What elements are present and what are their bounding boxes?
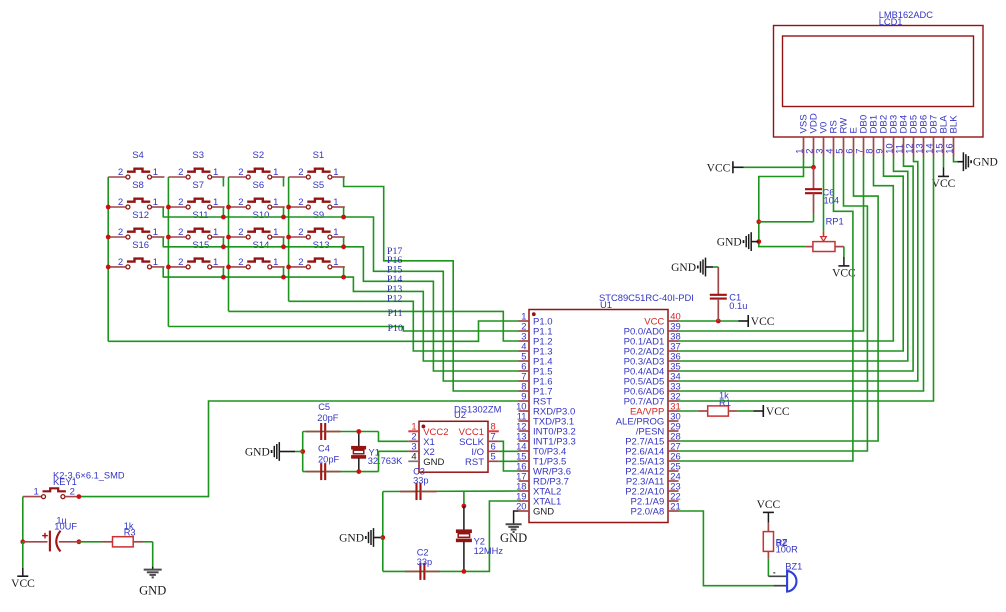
LCD1 pin 3 (V0) xyxy=(823,137,825,156)
microcontroller U1 STC89C51RC-40I-PDI xyxy=(529,310,668,523)
wire column1 net P10 to U1 P1.0 xyxy=(108,321,518,341)
U2 pin 5 (RST) xyxy=(488,460,499,462)
svg-text:2: 2 xyxy=(298,197,303,208)
switch S15 xyxy=(168,266,185,268)
wire DB7 pin14 to P0.7 xyxy=(679,157,934,402)
LCD1 pin 5 (RW) xyxy=(843,137,845,156)
wire DB2 pin9 to P0.2 xyxy=(679,157,904,352)
LCD1 pin 15 (BLA) xyxy=(943,137,945,156)
junction column 4 row 4 xyxy=(286,265,291,270)
U2 pin 3 (X2) xyxy=(408,450,419,452)
svg-text:VCC: VCC xyxy=(757,499,781,511)
svg-text:BZ1: BZ1 xyxy=(785,561,802,571)
switch S7 xyxy=(168,206,185,208)
svg-text:U2: U2 xyxy=(454,409,466,420)
U1 pin 2 (P1.1) xyxy=(519,330,530,332)
junction cap right xyxy=(77,539,82,544)
junction Y1 GND xyxy=(300,449,305,454)
switch S10 xyxy=(229,236,246,238)
junction row line 2 col 2 xyxy=(221,215,226,220)
VCC port left of C6 xyxy=(733,166,744,168)
crystal Y1 32.763K xyxy=(358,432,360,447)
svg-text:12MHz: 12MHz xyxy=(474,546,504,556)
svg-text:5: 5 xyxy=(491,451,496,462)
U2 pin 1 (VCC2) xyxy=(408,430,419,432)
svg-text:C2: C2 xyxy=(417,548,429,558)
wire keypad column 2 rail xyxy=(167,177,169,327)
wire DB1 pin8 to P0.1 xyxy=(679,157,894,342)
wire Y2 feed top xyxy=(463,492,465,507)
switch S1 xyxy=(289,176,306,178)
ground under R3 xyxy=(152,567,154,570)
resistor R3 1k xyxy=(79,541,103,543)
wire column4 net P13 to U1 P1.3 xyxy=(289,301,519,351)
svg-text:R3: R3 xyxy=(124,528,136,538)
LCD1 pin 11 (DB4) xyxy=(903,137,905,156)
potentiometer RP1 xyxy=(813,242,835,252)
wire switch row 2 col 2 pin1 drop xyxy=(222,207,224,217)
U1 pin 29 (/PESN) xyxy=(668,430,679,432)
U1 pin 32 (P0.7/AD7) xyxy=(668,400,679,402)
svg-text:P12: P12 xyxy=(387,293,402,304)
wire S2 pin1 stub xyxy=(283,177,285,187)
U1 pin 13 (INT1/P3.3) xyxy=(519,440,530,442)
wire switch row 3 col 1 pin1 drop xyxy=(162,237,164,247)
LCD module LCD1 LMB162ADC xyxy=(774,26,984,138)
svg-text:P10: P10 xyxy=(388,323,403,334)
wire V0 pin3 to RP1 wiper xyxy=(823,157,825,232)
wire KEY1 to U1 RST pin9 xyxy=(79,401,519,497)
U1 pin 33 (P0.6/AD6) xyxy=(668,390,679,392)
wire switch row 2 col 4 pin1 drop xyxy=(343,207,345,217)
svg-text:S7: S7 xyxy=(192,180,204,191)
switch S16 xyxy=(108,266,125,268)
U1 pin 15 (T1/P3.5) xyxy=(519,460,530,462)
junction column 3 row 2 xyxy=(226,205,231,210)
svg-text:1: 1 xyxy=(153,257,158,268)
svg-text:VCC: VCC xyxy=(932,178,956,190)
svg-text:4: 4 xyxy=(411,451,416,462)
U1 pin 9 (RST) xyxy=(519,400,530,402)
svg-text:2: 2 xyxy=(178,227,183,238)
svg-text:10UF: 10UF xyxy=(54,522,77,532)
svg-text:C4: C4 xyxy=(318,444,330,454)
svg-text:20: 20 xyxy=(516,500,526,511)
svg-text:KEY1: KEY1 xyxy=(53,477,77,487)
junction column 1 row 4 xyxy=(106,265,111,270)
wire U2 I/O to U1 T0/P3.4 xyxy=(499,450,519,452)
U1 pin 34 (P0.5/AD5) xyxy=(668,380,679,382)
U1 pin 18 (XTAL2) xyxy=(519,490,530,492)
LCD1 pin 2 (VDD) xyxy=(813,137,815,156)
U1 pin 20 (GND) xyxy=(519,510,530,512)
svg-text:2: 2 xyxy=(238,227,243,238)
svg-text:2: 2 xyxy=(118,197,123,208)
VCC port under RP1 xyxy=(843,247,845,257)
switch S9 xyxy=(289,236,306,238)
svg-text:1: 1 xyxy=(273,257,278,268)
svg-text:1: 1 xyxy=(213,227,218,238)
junction Y1 top xyxy=(356,429,361,434)
U1 pin 10 (RXD/P3.0) xyxy=(519,410,530,412)
wire VSS pin1 to GND rail xyxy=(759,157,806,247)
ground under U1 xyxy=(506,523,522,525)
junction VDD/VCC/C6 xyxy=(811,165,816,170)
svg-text:1: 1 xyxy=(333,167,338,178)
svg-text:GND: GND xyxy=(500,531,527,545)
svg-text:S1: S1 xyxy=(313,150,325,161)
wire switch row 4 col 3 pin1 drop xyxy=(283,267,285,277)
switch S5 xyxy=(289,206,306,208)
capacitor C5 20pF xyxy=(306,431,321,433)
wire DB5 pin12 to P0.5 xyxy=(679,157,918,382)
capacitor C6 104 xyxy=(813,167,815,189)
junction on VSS rail at C6 bottom xyxy=(756,219,761,224)
LCD1 pin 9 (DB2) xyxy=(883,137,885,156)
wire switch row 3 col 4 pin1 drop xyxy=(343,237,345,247)
U2 pin 8 (VCC1) xyxy=(488,430,499,432)
switch S12 xyxy=(108,236,125,238)
U1 pin 21 (P2.0/A8) xyxy=(668,510,679,512)
svg-text:1: 1 xyxy=(333,227,338,238)
wire switch row 4 col 4 pin1 drop xyxy=(343,267,345,277)
svg-text:S11: S11 xyxy=(192,210,208,221)
U2 pin 6 (I/O) xyxy=(488,450,499,452)
svg-text:1: 1 xyxy=(153,227,158,238)
RTC U2 DS1302ZM xyxy=(419,421,488,472)
svg-text:U1: U1 xyxy=(600,299,612,310)
svg-text:S2: S2 xyxy=(253,150,265,161)
LCD1 pin 1 (VSS) xyxy=(803,137,805,156)
U1 pin 14 (T0/P3.4) xyxy=(519,450,530,452)
U1 pin 31 (EA/VPP) xyxy=(668,410,679,412)
switch S8 xyxy=(108,206,125,208)
LCD1 pin 10 (DB3) xyxy=(893,137,895,156)
junction column 1 row 2 xyxy=(106,205,111,210)
svg-text:GND: GND xyxy=(139,584,166,598)
wire Y2 left rail xyxy=(382,492,384,572)
wire VCC pin40 xyxy=(679,320,739,322)
wire R3 to GND xyxy=(152,542,154,567)
U1 pin 25 (P2.4/A12) xyxy=(668,470,679,472)
U1 pin 16 (WR/P3.6) xyxy=(519,470,530,472)
junction column 2 row 4 xyxy=(166,265,171,270)
svg-text:1: 1 xyxy=(34,487,39,498)
svg-text:STC89C51RC-40I-PDI: STC89C51RC-40I-PDI xyxy=(599,292,694,303)
svg-text:104: 104 xyxy=(824,196,840,206)
wire DB0 pin7 to P0.0 xyxy=(679,157,864,332)
svg-text:1: 1 xyxy=(153,197,158,208)
junction column 1 row 3 xyxy=(106,235,111,240)
junction column 4 row 2 xyxy=(286,205,291,210)
wire switch row 4 col 2 pin1 drop xyxy=(222,267,224,277)
LCD1 pin 4 (RS) xyxy=(833,137,835,156)
U1 pin 3 (P1.2) xyxy=(519,340,530,342)
LCD1 pin 14 (DB7) xyxy=(933,137,935,156)
svg-text:VCC: VCC xyxy=(707,162,731,174)
wire U2 RST to U1 T1/P3.5 xyxy=(499,460,519,462)
junction row line 3 col 4 xyxy=(341,244,346,249)
svg-text:100R: 100R xyxy=(776,545,799,555)
svg-text:2: 2 xyxy=(238,257,243,268)
U1 pin 11 (TXD/P3.1) xyxy=(519,420,530,422)
crystal Y2 12MHz xyxy=(463,506,465,530)
svg-text:VCC: VCC xyxy=(766,406,790,418)
svg-text:S10: S10 xyxy=(253,210,270,221)
svg-text:GND: GND xyxy=(339,532,364,544)
wire XTAL2 rail xyxy=(383,490,519,493)
U1 pin 35 (P0.4/AD4) xyxy=(668,370,679,372)
switch S6 xyxy=(229,206,246,208)
wire XTAL1 rail xyxy=(383,501,519,571)
U1 pin 37 (P0.2/AD2) xyxy=(668,350,679,352)
svg-text:Y2: Y2 xyxy=(474,536,485,546)
capacitor C2 33p xyxy=(405,570,421,572)
capacitor C3 33p xyxy=(400,491,417,493)
LCD1 pin 13 (DB6) xyxy=(923,137,925,156)
svg-text:2: 2 xyxy=(178,257,183,268)
VCC port under LCD pin15 BLA xyxy=(943,157,945,168)
svg-text:32.763K: 32.763K xyxy=(368,456,403,466)
junction row line 3 col 2 xyxy=(221,244,226,249)
VCC port bottom left xyxy=(22,568,24,576)
wire RW pin5 to P2.6 xyxy=(679,157,868,452)
svg-text:GND: GND xyxy=(671,262,696,274)
svg-text:1: 1 xyxy=(153,167,158,178)
wire keypad column 3 rail xyxy=(228,177,230,311)
svg-text:LCD1: LCD1 xyxy=(879,17,903,27)
svg-text:S4: S4 xyxy=(132,150,144,161)
switch S11 xyxy=(168,236,185,238)
svg-text:2: 2 xyxy=(118,257,123,268)
junction row line 3 col 3 xyxy=(281,244,286,249)
junction KEY1 pin2 xyxy=(77,494,82,499)
U1 pin 28 (P2.7/A15) xyxy=(668,440,679,442)
svg-text:1: 1 xyxy=(273,197,278,208)
U1 pin 36 (P0.3/AD3) xyxy=(668,360,679,362)
U1 pin 39 (P0.0/AD0) xyxy=(668,330,679,332)
wire U2 SCLK to U1 WR/P3.6 xyxy=(499,441,519,471)
svg-text:S13: S13 xyxy=(313,240,330,251)
buzzer BZ1 xyxy=(768,575,787,577)
switch KEY1 K2-3,6x6.1_SMD xyxy=(23,496,41,498)
svg-text:2: 2 xyxy=(298,257,303,268)
U1 pin 26 (P2.5/A13) xyxy=(668,460,679,462)
U2 pin 2 (X1) xyxy=(408,440,419,442)
wire VCC down-left xyxy=(22,542,24,568)
wire DB4 pin11 to P0.4 xyxy=(679,157,914,372)
wire KEY1 pin1 down xyxy=(22,497,24,542)
U2 pin 7 (SCLK) xyxy=(488,440,499,442)
svg-text:RP1: RP1 xyxy=(826,216,844,226)
LCD1 pin 12 (DB5) xyxy=(913,137,915,156)
wire U1 GND pin20 to ground xyxy=(514,511,519,524)
junction C1/VCC xyxy=(716,319,721,324)
svg-text:2: 2 xyxy=(238,197,243,208)
svg-text:S9: S9 xyxy=(313,210,325,221)
svg-text:GND: GND xyxy=(717,236,742,248)
svg-text:2: 2 xyxy=(70,487,75,498)
U1 pin 30 (ALE/PROG) xyxy=(668,420,679,422)
svg-text:S5: S5 xyxy=(313,180,325,191)
junction Y2 GND xyxy=(380,535,385,540)
wire column3 net P12 to U1 P1.2 xyxy=(229,311,519,341)
svg-text:33p: 33p xyxy=(413,476,429,486)
svg-text:VCC: VCC xyxy=(751,316,775,328)
LCD1 pin 16 (BLK) xyxy=(953,137,955,156)
svg-text:S3: S3 xyxy=(192,150,204,161)
resistor R1 1k xyxy=(679,410,698,412)
U1 pin 1 (P1.0) xyxy=(519,320,530,322)
svg-text:GND: GND xyxy=(973,157,998,169)
LCD1 pin 6 (E) xyxy=(853,137,855,156)
svg-text:2: 2 xyxy=(178,197,183,208)
svg-text:0.1u: 0.1u xyxy=(729,301,747,311)
wire switch row 4 col 1 pin1 drop xyxy=(162,267,164,277)
wire column2 net P11 to U1 P1.1 xyxy=(168,327,518,332)
U1 pin 27 (P2.6/A14) xyxy=(668,450,679,452)
junction column 3 row 3 xyxy=(226,235,231,240)
svg-text:1: 1 xyxy=(273,167,278,178)
U1 pin 7 (P1.6) xyxy=(519,380,530,382)
svg-text:2: 2 xyxy=(118,167,123,178)
svg-text:2: 2 xyxy=(298,227,303,238)
svg-text:20pF: 20pF xyxy=(317,413,339,423)
svg-text:2: 2 xyxy=(178,167,183,178)
U1 pin 8 (P1.7) xyxy=(519,390,530,392)
junction row line 4 col 3 xyxy=(281,275,286,280)
svg-text:VCC: VCC xyxy=(11,578,35,590)
junction column 4 row 3 xyxy=(286,235,291,240)
svg-text:16: 16 xyxy=(944,143,955,153)
wire switch row 3 col 2 pin1 drop xyxy=(222,237,224,247)
U1 pin 40 (VCC) xyxy=(668,320,679,322)
VCC port at pin40 xyxy=(738,320,748,322)
svg-text:1: 1 xyxy=(333,197,338,208)
wire Y1 left rail xyxy=(302,432,304,472)
wire row1 net P17 to U1 P1.7 xyxy=(344,177,519,391)
U1 pin 23 (P2.2/A10) xyxy=(668,490,679,492)
svg-text:S6: S6 xyxy=(253,180,265,191)
svg-text:33p: 33p xyxy=(417,557,433,567)
svg-text:C5: C5 xyxy=(318,402,330,412)
wire row4 net P14 to U1 P1.4 xyxy=(163,277,519,361)
svg-text:1: 1 xyxy=(333,257,338,268)
switch S3 xyxy=(168,176,185,178)
svg-text:P2.0/A8: P2.0/A8 xyxy=(630,507,664,518)
svg-text:20pF: 20pF xyxy=(318,454,340,464)
wire keypad column 4 rail xyxy=(288,177,290,301)
U1 pin 22 (P2.1/A9) xyxy=(668,500,679,502)
wire keypad column 1 rail xyxy=(107,177,109,341)
wire DB3 pin10 to P0.3 xyxy=(679,157,908,362)
GND port right of LCD xyxy=(957,161,963,163)
svg-text:S8: S8 xyxy=(132,180,144,191)
U1 pin 6 (P1.5) xyxy=(519,370,530,372)
wire switch row 3 col 3 pin1 drop xyxy=(283,237,285,247)
junction row line 4 col 2 xyxy=(221,275,226,280)
svg-text:P11: P11 xyxy=(388,308,403,319)
VCC port at R1 xyxy=(754,410,764,412)
junction row line 2 col 3 xyxy=(281,215,286,220)
junction Y2 top xyxy=(462,504,467,509)
svg-text:S14: S14 xyxy=(253,240,270,251)
LCD1 pin 8 (DB1) xyxy=(873,137,875,156)
svg-text:BLK: BLK xyxy=(949,115,960,134)
switch S14 xyxy=(229,266,246,268)
U2 pin 4 (GND) xyxy=(408,460,419,462)
svg-text:2: 2 xyxy=(238,167,243,178)
svg-text:GND: GND xyxy=(423,457,444,468)
svg-text:1: 1 xyxy=(213,257,218,268)
svg-text:2: 2 xyxy=(118,227,123,238)
wire switch row 2 col 3 pin1 drop xyxy=(283,207,285,217)
wire BLK pin16 to GND xyxy=(954,157,958,162)
capacitor C4 20pF xyxy=(306,471,321,473)
LCD1 pin 7 (DB0) xyxy=(863,137,865,156)
junction column 2 row 3 xyxy=(166,235,171,240)
wire RS pin4 to P2.7 xyxy=(679,157,853,462)
U1 pin 12 (INT0/P3.2) xyxy=(519,430,530,432)
junction row line 4 col 4 xyxy=(341,275,346,280)
svg-text:21: 21 xyxy=(670,500,680,511)
svg-text:GND: GND xyxy=(245,446,270,458)
wire DB6 pin13 to P0.6 xyxy=(679,157,924,392)
U1 pin 38 (P0.1/AD1) xyxy=(668,340,679,342)
wire Y1 bottom rail to U2 X2 xyxy=(303,471,379,473)
svg-text:S15: S15 xyxy=(192,240,209,251)
svg-text:GND: GND xyxy=(533,507,554,518)
wire E pin6 to P2.5 xyxy=(679,157,879,442)
U1 pin 4 (P1.3) xyxy=(519,350,530,352)
resistor R2 100R xyxy=(767,523,769,532)
wire P2.0/A8 pin21 to buzzer xyxy=(679,511,774,586)
svg-text:1: 1 xyxy=(213,167,218,178)
U1 pin 17 (RD/P3.7) xyxy=(519,480,530,482)
svg-text:S16: S16 xyxy=(132,240,149,251)
wire row2 net P16 to U1 P1.6 xyxy=(163,217,519,381)
wire S3 pin1 stub xyxy=(222,177,224,187)
svg-text:1: 1 xyxy=(213,197,218,208)
junction row line 2 col 4 xyxy=(341,215,346,220)
svg-text:1: 1 xyxy=(273,227,278,238)
electrolytic capacitor 10UF xyxy=(23,541,48,543)
U1 pin 19 (XTAL1) xyxy=(519,500,530,502)
switch S13 xyxy=(289,266,306,268)
wire R2 to buzzer xyxy=(767,559,769,577)
junction Y1 bottom xyxy=(356,469,361,474)
wire Y1 top rail to U2 X1 xyxy=(303,431,379,433)
wire row3 net P15 to U1 P1.5 xyxy=(163,247,519,371)
junction Y2 bottom xyxy=(462,569,467,574)
junction column 2 row 2 xyxy=(166,205,171,210)
svg-text:2: 2 xyxy=(298,167,303,178)
svg-text:S12: S12 xyxy=(132,210,149,221)
svg-text:RST: RST xyxy=(465,457,484,468)
U1 pin 5 (P1.4) xyxy=(519,360,530,362)
switch S4 xyxy=(108,176,125,178)
wire VDD pin2 to VCC xyxy=(813,157,815,168)
wire switch row 2 col 1 pin1 drop xyxy=(162,207,164,217)
svg-text:R1: R1 xyxy=(719,398,731,408)
junction cap left xyxy=(20,539,25,544)
junction at GND port xyxy=(756,239,761,244)
junction column 3 row 4 xyxy=(226,265,231,270)
switch S2 xyxy=(229,176,246,178)
U1 pin 24 (P2.3/A11) xyxy=(668,480,679,482)
